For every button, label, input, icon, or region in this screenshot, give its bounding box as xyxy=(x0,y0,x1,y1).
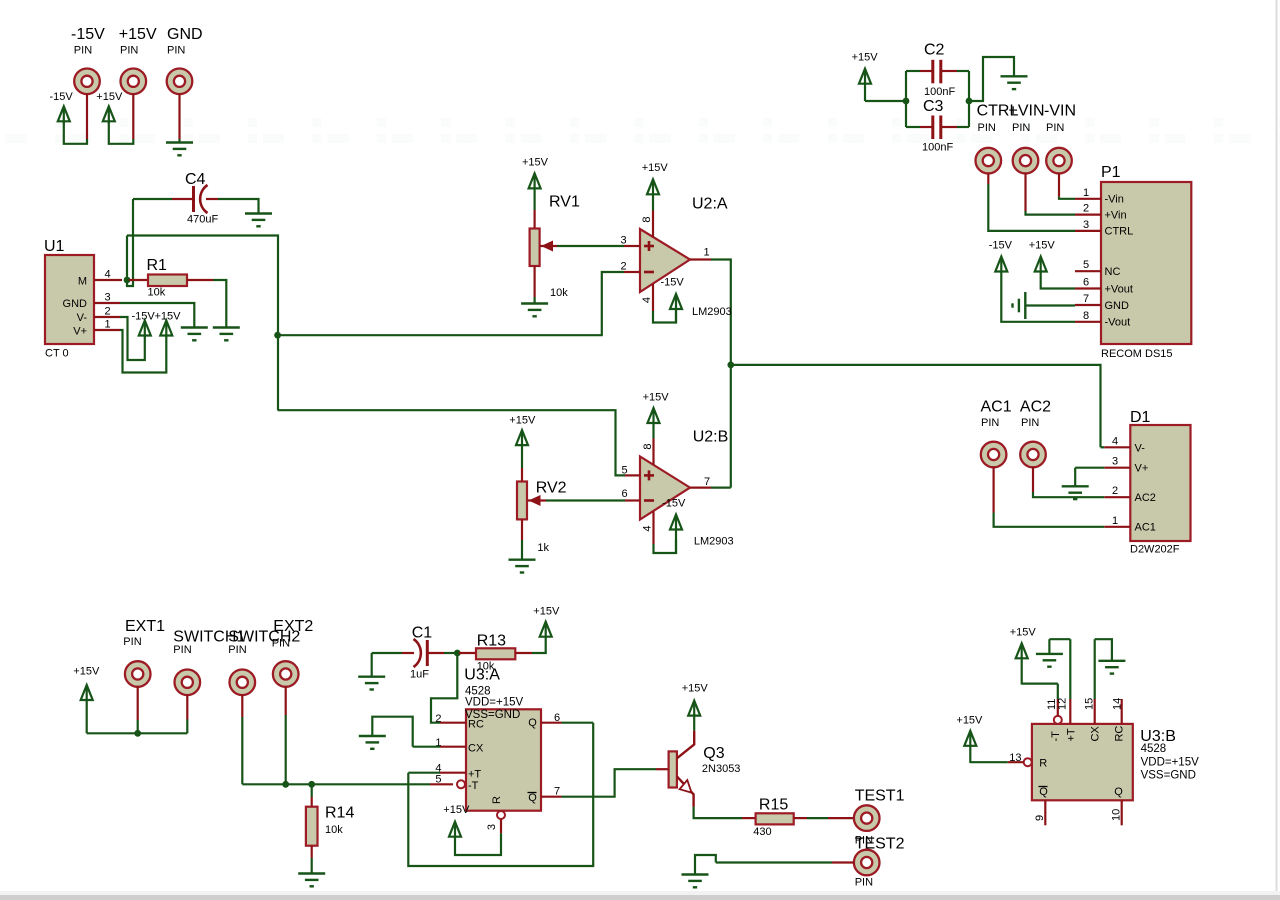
pin R15 right xyxy=(794,817,807,819)
terminal GND xyxy=(167,69,193,95)
svg-text:2: 2 xyxy=(1083,203,1089,215)
svg-text:AC1: AC1 xyxy=(981,399,1012,416)
IC U3:A body xyxy=(466,709,541,810)
pin 4 U2:A xyxy=(652,284,654,312)
wire RV2 wiper to U2:B pin6 xyxy=(546,499,625,501)
right edge line xyxy=(1276,0,1278,893)
svg-text:V+: V+ xyxy=(73,326,87,338)
power +15V arrow Q3 xyxy=(688,701,700,716)
svg-text:V-: V- xyxy=(1135,443,1146,455)
svg-text:GND: GND xyxy=(63,298,88,310)
junction node A xyxy=(274,332,281,339)
svg-text:AC2: AC2 xyxy=(1135,492,1156,504)
svg-text:P1: P1 xyxy=(1101,164,1121,181)
wire pin15 vertical xyxy=(1094,639,1096,699)
svg-text:+15V: +15V xyxy=(682,683,709,695)
wire C2 right xyxy=(957,70,969,72)
P1 pins left xyxy=(1075,198,1101,200)
svg-text:1: 1 xyxy=(104,319,110,331)
svg-text:100nF: 100nF xyxy=(924,86,955,98)
wire U2:A out down to U2:B out xyxy=(711,260,731,488)
svg-text:15: 15 xyxy=(1084,698,1096,710)
svg-text:+T: +T xyxy=(468,769,481,781)
power +15V arrow xyxy=(103,106,115,123)
pin C2 left xyxy=(920,70,932,72)
svg-text:+15V: +15V xyxy=(643,392,670,404)
svg-text:470uF: 470uF xyxy=(187,214,218,226)
svg-text:PIN: PIN xyxy=(173,644,191,656)
svg-text:AC2: AC2 xyxy=(1020,399,1051,416)
pin tail -VIN xyxy=(1058,173,1060,197)
terminal +15V xyxy=(121,69,147,95)
ground R14 xyxy=(298,874,325,887)
capacitor C4 plates xyxy=(194,185,208,213)
wire pin3 to +15V xyxy=(455,833,501,855)
resistor R15 body xyxy=(756,813,794,824)
terminal AC1 xyxy=(981,442,1007,468)
pin 2 V- xyxy=(94,316,120,318)
svg-text:3: 3 xyxy=(104,292,110,304)
svg-text:6: 6 xyxy=(1083,277,1089,289)
terminal AC2 xyxy=(1020,442,1046,468)
wire to -15V power xyxy=(64,122,87,144)
svg-text:Q: Q xyxy=(528,717,537,729)
wire Q3 emitter to R15 xyxy=(694,807,742,818)
terminal EXT2 xyxy=(273,661,299,687)
ground U1 GND xyxy=(181,328,208,341)
svg-text:PIN: PIN xyxy=(981,417,999,429)
wire CTRL to P1 pin3 xyxy=(988,184,1075,231)
power +15V arrow U1 xyxy=(160,321,172,338)
wire pin11 vertical xyxy=(1057,684,1059,699)
wire to ground xyxy=(178,139,180,143)
wire CX xyxy=(413,746,440,748)
ground C4 xyxy=(245,214,272,227)
pin tail TEST1 xyxy=(828,817,854,819)
wire TEST2 left xyxy=(716,861,832,863)
ground TEST2 xyxy=(682,875,709,888)
svg-text:LM2903: LM2903 xyxy=(692,306,732,318)
svg-text:430: 430 xyxy=(753,826,771,838)
RV1 wiper arrow xyxy=(540,241,557,252)
wire SWITCH2 down xyxy=(241,717,243,784)
pin C4 right xyxy=(206,198,218,200)
wire ground to P1 pin7 xyxy=(1025,304,1075,306)
svg-text:LM2903: LM2903 xyxy=(694,536,734,548)
svg-text:GND: GND xyxy=(1105,300,1130,312)
svg-text:8: 8 xyxy=(1083,310,1089,322)
pin C1 right xyxy=(427,652,444,654)
wire U1 V- to -15V xyxy=(120,317,145,360)
svg-text:V-: V- xyxy=(77,312,88,324)
svg-text:Q: Q xyxy=(1114,786,1123,798)
pin 8 U2:B xyxy=(652,439,654,466)
power -15V arrow P1 xyxy=(995,257,1007,272)
wire C2C3 left vertical xyxy=(905,71,907,127)
svg-text:R1: R1 xyxy=(147,257,168,274)
svg-text:4: 4 xyxy=(1112,435,1118,447)
power +15V arrow EXT xyxy=(81,685,93,733)
ground D1 V+ xyxy=(1062,486,1089,499)
terminal SWITCH1 xyxy=(175,670,201,696)
svg-text:-15V: -15V xyxy=(661,277,685,289)
svg-text:1: 1 xyxy=(1112,515,1118,527)
pin RV1 top xyxy=(533,210,535,229)
wire +VIN to P1 pin2 xyxy=(1026,211,1076,215)
pin tail SWITCH1 xyxy=(186,695,188,720)
wire node to U2:B pin5 xyxy=(278,410,625,475)
op-amp U2:A body xyxy=(640,229,690,292)
svg-text:RV1: RV1 xyxy=(549,194,580,211)
ground U3:B 12 xyxy=(1036,654,1063,667)
terminal SWITCH2 xyxy=(230,670,256,696)
wire C1 to ground xyxy=(371,653,373,677)
bubble pin 13 U3:B xyxy=(1024,758,1032,766)
wire C4 to ground xyxy=(218,199,259,213)
svg-text:2N3053: 2N3053 xyxy=(702,763,741,775)
svg-text:2: 2 xyxy=(620,261,626,273)
svg-text:6: 6 xyxy=(621,488,627,500)
wire C4 left down to node xyxy=(127,199,133,286)
wire C1 node to U3:A pin2 xyxy=(431,653,457,723)
svg-text:R14: R14 xyxy=(325,805,354,822)
svg-text:+15V: +15V xyxy=(1029,240,1056,252)
wire Q out xyxy=(562,722,594,724)
wire CX to ground xyxy=(372,717,412,747)
wire Q3 collector to +15V xyxy=(693,714,695,731)
wire C4 left xyxy=(133,198,172,200)
pin R13 right xyxy=(515,652,532,654)
pin tail +VIN xyxy=(1024,173,1026,211)
svg-text:3: 3 xyxy=(620,235,626,247)
svg-text:-15V: -15V xyxy=(132,311,156,323)
terminal CTRL xyxy=(976,148,1002,174)
svg-text:9: 9 xyxy=(1034,815,1046,821)
power -15V arrow U2:A xyxy=(670,294,682,324)
svg-text:4528: 4528 xyxy=(1141,743,1167,755)
pin R1 right xyxy=(187,279,213,281)
wire -VIN to P1 pin1 xyxy=(1059,197,1075,199)
svg-text:+15V: +15V xyxy=(443,804,470,816)
svg-text:VDD=+15V: VDD=+15V xyxy=(1141,757,1200,769)
wire node to U2:A pin2 xyxy=(278,272,624,335)
power +15V arrow RV2 xyxy=(516,430,528,468)
U2:A plus minus xyxy=(644,241,654,272)
wire AC1 to D1 pin1 xyxy=(994,513,1105,527)
svg-text:D2W202F: D2W202F xyxy=(1130,544,1180,556)
power +15V arrow U2:B xyxy=(648,408,660,439)
pin R14 bottom xyxy=(311,846,313,858)
svg-text:-15V: -15V xyxy=(989,240,1013,252)
svg-text:1: 1 xyxy=(703,247,709,259)
transistor Q3 emitter xyxy=(677,776,694,807)
resistor R1 body xyxy=(148,275,187,287)
svg-text:U2:A: U2:A xyxy=(692,196,728,213)
wire +15V to P1 pin6 xyxy=(1041,271,1075,289)
svg-text:1uF: 1uF xyxy=(410,669,429,681)
pin C1 left xyxy=(402,652,414,654)
svg-text:RC: RC xyxy=(1114,726,1126,742)
pin 1 V+ xyxy=(94,329,120,331)
wire R14 to ground xyxy=(311,858,313,874)
pin tail GND terminal xyxy=(178,94,180,139)
pin tail CTRL xyxy=(987,173,989,184)
wire pin13 to +15V xyxy=(970,761,1008,763)
wire AC2 to D1 pin2 xyxy=(1033,492,1104,497)
svg-text:3: 3 xyxy=(1083,219,1089,231)
ground U3:A CX xyxy=(359,736,386,749)
svg-text:10: 10 xyxy=(1111,809,1123,821)
svg-text:RV2: RV2 xyxy=(536,480,567,497)
junction EXT1 xyxy=(134,730,141,737)
pin 5 U2:B xyxy=(625,474,640,476)
svg-text:PIN: PIN xyxy=(855,877,873,889)
wire D1 pin3 ground drop xyxy=(1074,468,1076,487)
svg-text:R: R xyxy=(491,796,503,804)
terminal EXT1 xyxy=(125,661,151,687)
wire to U3:A pin5 -T xyxy=(242,783,430,785)
pin 6 U2:B xyxy=(625,499,640,501)
svg-text:PIN: PIN xyxy=(272,638,290,650)
wire U2:A pin4 to -15V xyxy=(653,309,676,323)
svg-text:+15V: +15V xyxy=(73,666,100,678)
svg-text:14: 14 xyxy=(1111,698,1123,710)
svg-text:+15V: +15V xyxy=(956,715,983,727)
wire C1 right xyxy=(444,652,457,654)
svg-text:2: 2 xyxy=(435,713,441,725)
pin tail AC2 xyxy=(1032,467,1034,492)
U2:B plus minus xyxy=(644,470,654,500)
svg-text:10k: 10k xyxy=(325,824,343,836)
pin 4 U3:A xyxy=(440,772,466,774)
svg-text:EXT1: EXT1 xyxy=(125,618,165,635)
op-amp U2:B body xyxy=(640,457,690,520)
svg-text:PIN: PIN xyxy=(1046,122,1064,134)
pin R13 left xyxy=(459,652,476,654)
svg-text:+15V: +15V xyxy=(509,415,536,427)
junction EXT2 xyxy=(282,781,289,788)
power +15V arrow RV1 xyxy=(529,173,541,210)
svg-text:PIN: PIN xyxy=(74,45,92,57)
wire to D1 pin4 xyxy=(1101,446,1105,448)
svg-text:5: 5 xyxy=(435,774,441,786)
junction output node xyxy=(727,362,734,369)
pin tail EXT1 xyxy=(137,686,139,720)
bubble pin 3 U3:A xyxy=(497,811,505,819)
wire pin12 ground drop xyxy=(1048,639,1050,654)
pin tail SWITCH2 xyxy=(241,695,243,717)
wire to C2 xyxy=(906,70,920,72)
wire C3 right xyxy=(957,126,969,128)
svg-text:8: 8 xyxy=(642,443,654,449)
wire +15V to C2C3 node xyxy=(865,100,906,102)
svg-text:-15V: -15V xyxy=(662,498,686,510)
pin tail +15V terminal xyxy=(132,94,134,139)
junction C2C3 right xyxy=(966,98,973,105)
wire EXT1 down xyxy=(137,720,139,733)
wire to +15V power xyxy=(109,122,134,144)
pin 4 M xyxy=(94,279,122,281)
svg-text:4: 4 xyxy=(641,297,653,303)
svg-text:+15V: +15V xyxy=(96,91,123,103)
terminal TEST1 xyxy=(854,805,880,831)
pin C2 right xyxy=(942,70,957,72)
svg-text:10k: 10k xyxy=(550,287,568,299)
junction C2C3 left xyxy=(903,98,910,105)
svg-text:-15V: -15V xyxy=(71,26,105,43)
svg-text:5: 5 xyxy=(621,465,627,477)
junction M node xyxy=(124,277,131,284)
wire RV2 to ground xyxy=(521,540,523,560)
svg-text:TEST1: TEST1 xyxy=(855,788,905,805)
power +15V arrow C2 xyxy=(859,69,871,101)
svg-text:Q: Q xyxy=(528,792,537,804)
svg-text:RC: RC xyxy=(468,719,484,731)
svg-text:-VIN: -VIN xyxy=(1044,103,1076,120)
svg-text:AC1: AC1 xyxy=(1135,522,1156,534)
svg-text:CX: CX xyxy=(468,743,484,755)
wire +T xyxy=(408,772,440,774)
terminal +VIN xyxy=(1013,148,1039,174)
pin tail EXT2 xyxy=(285,686,287,715)
wire U1 GND to ground xyxy=(120,303,194,328)
pin 14 U3:B xyxy=(1121,699,1123,724)
pin C4 left xyxy=(172,198,192,200)
power +15V arrow R13 xyxy=(540,622,552,638)
ground R1 xyxy=(213,328,240,341)
svg-text:VSS=GND: VSS=GND xyxy=(1141,770,1196,782)
power -15V arrow xyxy=(58,106,70,123)
pin 7 U2:B output xyxy=(690,487,711,489)
svg-text:10k: 10k xyxy=(148,287,166,299)
power +15V arrow U3:A R xyxy=(449,822,461,838)
wire node to right vertical xyxy=(127,236,278,411)
svg-text:U2:B: U2:B xyxy=(693,429,729,446)
pin C3 left xyxy=(920,126,932,128)
pin 3 GND xyxy=(94,302,120,304)
power -15V arrow U1 xyxy=(139,321,151,338)
svg-text:7: 7 xyxy=(704,476,710,488)
svg-text:+15V: +15V xyxy=(119,26,157,43)
wire R13 to +15V xyxy=(532,638,546,654)
resistor R13 body xyxy=(476,648,515,659)
pin 5 U3:A xyxy=(430,783,453,785)
svg-text:PIN: PIN xyxy=(123,636,141,648)
svg-text:C3: C3 xyxy=(923,98,944,115)
svg-text:VDD=+15V: VDD=+15V xyxy=(465,697,524,709)
svg-text:1k: 1k xyxy=(537,542,549,554)
wire C2C3 right vertical xyxy=(968,71,970,127)
capacitor C2 plates xyxy=(933,60,941,84)
wire SWITCH1 down xyxy=(186,720,188,734)
wire pin15 to ground xyxy=(1095,639,1112,661)
svg-text:PIN: PIN xyxy=(1012,122,1030,134)
power -15V arrow U2:B xyxy=(670,515,682,555)
svg-text:2: 2 xyxy=(1112,485,1118,497)
pin C3 right xyxy=(942,126,957,128)
ground U3:B 15 xyxy=(1098,661,1125,674)
wire +15V to EXT1 SWITCH1 xyxy=(87,732,188,734)
pin R15 left xyxy=(742,817,756,819)
wire ground to D1 pin3 xyxy=(1075,467,1104,469)
module D1 body xyxy=(1130,425,1190,541)
svg-text:RECOM DS15: RECOM DS15 xyxy=(1101,348,1173,360)
ground RV2 xyxy=(509,560,536,573)
svg-text:+15V: +15V xyxy=(852,52,879,64)
wire RV1 to ground xyxy=(533,297,535,304)
power +15V arrow U2:A xyxy=(647,179,659,210)
svg-text:CT 0: CT 0 xyxy=(45,348,69,360)
RV2 wiper arrow xyxy=(528,495,547,506)
potentiometer RV2 body xyxy=(517,482,527,520)
pin RV2 top xyxy=(521,468,523,482)
svg-text:-15V: -15V xyxy=(50,91,74,103)
pin 10 U3:B xyxy=(1121,800,1123,825)
wire C2C3 to ground xyxy=(969,57,1014,101)
svg-text:+15V: +15V xyxy=(522,157,549,169)
pin 1 U3:A xyxy=(440,746,466,748)
svg-text:C4: C4 xyxy=(185,171,206,188)
svg-text:+VIN: +VIN xyxy=(1009,103,1045,120)
power +15V arrow U3:B 13 xyxy=(964,731,976,763)
svg-text:-T: -T xyxy=(468,780,479,792)
pin 9 U3:B xyxy=(1044,800,1046,825)
wire RV1 wiper to U2:A pin3 xyxy=(557,245,624,247)
svg-text:Q3: Q3 xyxy=(703,745,724,762)
wire feedback Q to +T xyxy=(408,723,593,866)
svg-text:PIN: PIN xyxy=(1021,417,1039,429)
ground GND terminal xyxy=(166,143,193,156)
svg-text:-Vout: -Vout xyxy=(1105,317,1131,329)
svg-text:-T: -T xyxy=(1050,731,1062,742)
svg-text:3: 3 xyxy=(1112,456,1118,468)
wire pin12 vertical xyxy=(1069,639,1071,699)
wire output node to D1 pin4 xyxy=(731,365,1101,447)
svg-text:EXT2: EXT2 xyxy=(273,618,313,635)
ground RV1 xyxy=(521,304,548,317)
IC U1 body xyxy=(45,255,94,344)
pin RV2 bottom xyxy=(521,519,523,540)
pin RV1 bottom xyxy=(533,266,535,297)
wire pin11 to +15V xyxy=(1022,682,1058,684)
potentiometer RV1 body xyxy=(530,229,540,267)
svg-text:PIN: PIN xyxy=(120,45,138,57)
svg-text:PIN: PIN xyxy=(228,644,246,656)
terminal TEST2 xyxy=(854,850,880,876)
pin tail AC1 xyxy=(992,467,994,513)
wire C1 left xyxy=(372,652,402,654)
wire pin12 to ground elbow xyxy=(1049,638,1070,640)
pin tail -15V terminal xyxy=(86,94,88,139)
pin 3 U3:A xyxy=(500,819,502,833)
terminal -15V xyxy=(74,69,100,95)
capacitor C3 plates xyxy=(933,116,941,140)
ground P1 GND xyxy=(1013,292,1026,319)
svg-text:+15V: +15V xyxy=(533,606,560,618)
svg-text:12: 12 xyxy=(1056,698,1068,710)
svg-text:+Vin: +Vin xyxy=(1105,210,1127,222)
svg-text:5: 5 xyxy=(1083,259,1089,271)
wire U2:B pin4 to -15V xyxy=(654,540,677,554)
svg-text:GND: GND xyxy=(167,26,203,43)
wire U2:B out xyxy=(711,487,731,489)
pin 6 U3:A xyxy=(541,722,562,724)
transistor Q3 collector xyxy=(677,731,694,759)
pin 8 U2:A xyxy=(652,211,654,238)
svg-text:CX: CX xyxy=(1090,726,1102,742)
svg-text:6: 6 xyxy=(554,712,560,724)
pin 15 U3:B xyxy=(1094,699,1096,724)
